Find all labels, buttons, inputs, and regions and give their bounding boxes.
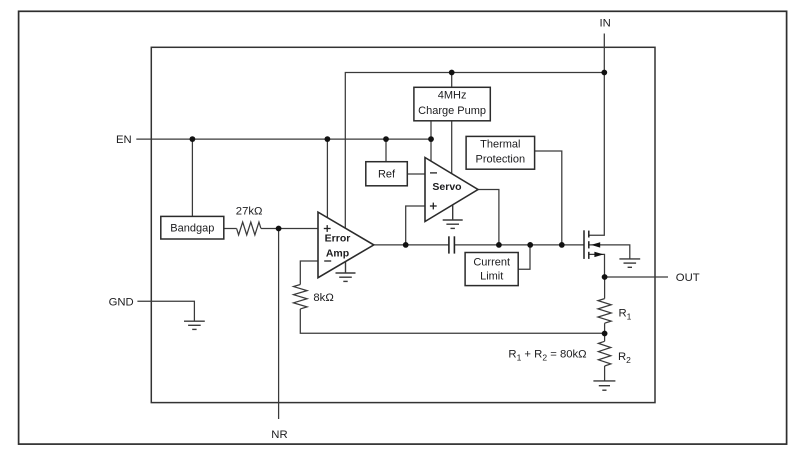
node servo output junction: [496, 242, 502, 248]
svg-text:OUT: OUT: [676, 272, 700, 284]
wire feedback node to R2: [604, 334, 606, 342]
node EN-chargepump: [428, 136, 434, 142]
svg-text:EN: EN: [116, 134, 132, 146]
svg-text:27kΩ: 27kΩ: [236, 206, 263, 218]
Current Limit block: [465, 253, 518, 286]
node EN-bandgap: [190, 136, 196, 142]
op-amp Servo: [425, 158, 478, 222]
svg-text:Charge Pump: Charge Pump: [418, 105, 486, 117]
wire NR node to Error Amp plus input: [279, 228, 318, 230]
node thermal junction: [559, 242, 565, 248]
svg-text:GND: GND: [109, 296, 134, 308]
wire charge pump output to Servo right: [451, 121, 453, 174]
wire GND pin: [137, 301, 194, 321]
wire main gate rail right of capacitor: [454, 244, 583, 246]
wire main gate rail left of capacitor: [406, 244, 449, 246]
Thermal Protection block: [466, 136, 534, 169]
node EN-erroramp: [325, 136, 331, 142]
wire 8k to feedback rail: [300, 309, 604, 333]
IC boundary box: [151, 47, 655, 402]
node OUT: [602, 274, 608, 280]
wire OUT node to R1: [604, 277, 606, 299]
wire Error Amp output up to Servo plus input: [406, 206, 425, 245]
node feedback divider tap: [602, 331, 608, 337]
wire charge pump supply drop: [451, 73, 453, 88]
4MHz Charge Pump block: [414, 87, 490, 121]
node EN-ref: [383, 136, 389, 142]
svg-text:Limit: Limit: [480, 270, 503, 282]
Ref block: [366, 162, 408, 186]
wire EN to Error Amp: [326, 139, 328, 218]
wire IN pin to MOSFET drain: [589, 34, 604, 236]
wire MOSFET source to OUT node: [589, 254, 604, 277]
transistor NMOS pass FET: [584, 230, 589, 259]
resistor 8k zigzag: [294, 285, 308, 309]
op-amp Error Amp: [318, 212, 374, 278]
ground at MOSFET body: [619, 259, 640, 267]
wire OUT pin: [605, 276, 668, 278]
svg-text:Servo: Servo: [432, 181, 461, 193]
wire EN rail: [136, 138, 431, 140]
node current limit junction: [527, 242, 533, 248]
ground below Error Amp: [336, 262, 356, 282]
ground at GND pin: [184, 321, 205, 329]
ground below R2: [593, 381, 615, 390]
svg-text:Bandgap: Bandgap: [170, 223, 214, 235]
wire R1 to feedback node: [604, 323, 606, 333]
node IN rail corner tap: [601, 70, 607, 76]
node error amp output: [403, 242, 409, 248]
svg-text:Error: Error: [325, 233, 351, 245]
svg-text:Amp: Amp: [326, 247, 349, 259]
wire MOSFET body stub to ground: [589, 245, 629, 259]
wire Bandgap to 27k resistor: [224, 228, 237, 230]
svg-text:Current: Current: [473, 256, 510, 268]
wire Error Amp output: [374, 244, 406, 246]
wire IN top rail: [345, 73, 604, 229]
resistor R2 zigzag: [598, 341, 610, 366]
wire NR node down to NR pin: [278, 229, 280, 420]
wire R2 to ground: [604, 366, 606, 381]
wire charge pump output to Servo left: [430, 121, 432, 161]
resistor 27k zigzag: [237, 222, 261, 235]
transistor body arrow: [591, 242, 600, 247]
resistor R1 zigzag: [598, 299, 611, 324]
wire Error Amp minus input: [300, 261, 318, 285]
wire EN to Ref: [385, 139, 387, 162]
capacitor on gate rail: [449, 236, 455, 253]
wire Current Limit to gate rail: [518, 245, 530, 269]
svg-text:NR: NR: [271, 429, 287, 441]
svg-text:Thermal: Thermal: [480, 139, 520, 151]
node IN rail charge pump tap: [449, 70, 455, 76]
wire 27k to NR node: [261, 228, 279, 230]
svg-text:Protection: Protection: [476, 154, 526, 166]
ground below Servo: [443, 205, 463, 229]
svg-text:4MHz: 4MHz: [438, 90, 467, 102]
svg-text:Ref: Ref: [378, 169, 396, 181]
wire Thermal Protection to gate rail: [535, 151, 562, 245]
wire Ref to Servo minus input: [407, 173, 425, 175]
svg-text:IN: IN: [600, 17, 611, 29]
node NR: [276, 226, 282, 232]
wire EN to Bandgap: [191, 139, 193, 216]
wire Servo output: [478, 190, 499, 245]
transistor source arrow: [594, 252, 603, 257]
svg-text:8kΩ: 8kΩ: [313, 292, 333, 304]
Bandgap block: [161, 216, 224, 239]
